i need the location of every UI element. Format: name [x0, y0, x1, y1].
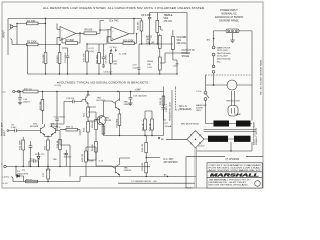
node switch labels [196, 91, 207, 112]
resistor R33 10 zobel [160, 96, 165, 105]
capacitor C8 bottom-left [22, 150, 68, 172]
resistor R22 1K [23, 89, 38, 93]
resistor R10 47K vertical [83, 43, 99, 74]
wire speaker jack [176, 88, 180, 110]
wire secondary [197, 139, 252, 151]
capacitor C16 47p [52, 98, 83, 124]
wire lamp row [206, 84, 253, 86]
node mains fuse note [217, 46, 232, 63]
wire TR5 to bottom [60, 145, 96, 177]
transistor TR1 BC184 [30, 123, 45, 136]
resistor R8 100 [84, 29, 107, 35]
wire top rail [8, 18, 134, 20]
capacitor C4 [88, 48, 94, 53]
transformer T1 core [204, 130, 257, 132]
connector IEC mains inlet [226, 29, 239, 33]
ground mains earth [230, 33, 235, 43]
capacitor C11 [173, 60, 179, 74]
node speaker label [179, 106, 192, 111]
op-amp IC2 [111, 27, 134, 41]
wire left rail [7, 19, 9, 56]
resistor R25 tail vertical [44, 140, 49, 167]
switch SW1 mechanical link [206, 74, 253, 76]
node junction TR collectors [19, 91, 131, 137]
resistor R32 vertical [145, 111, 153, 136]
capacitor C18 1000/25V [128, 92, 147, 106]
resistor R2 220K [27, 41, 61, 46]
lamp power indicator [227, 80, 237, 90]
resistor R7 2M2 feedback [62, 34, 80, 45]
node D.C. OUT label [164, 159, 179, 164]
resistor R,TR5 emitter vertical [102, 126, 105, 134]
transformer T1 secondary windings [208, 136, 251, 142]
node supply terminals [13, 90, 15, 92]
transistor TR2 BC184 [45, 123, 61, 145]
wire speaker feed [164, 87, 176, 136]
resistor R20 vertical [92, 120, 97, 130]
diode bridge BR1 [187, 131, 204, 148]
wire mains neutral [239, 31, 252, 75]
capacitor C5 10/25V vertical [102, 44, 108, 67]
wire to IC2 [100, 21, 111, 45]
capacitor C13 bottom [29, 159, 39, 167]
resistor R19 1K vertical [57, 140, 62, 168]
node OK junction label [164, 175, 168, 178]
capacitor C14 10/25V [18, 92, 31, 105]
wire power amp +34V rail [15, 91, 164, 93]
connector J1 input jack [10, 24, 18, 30]
resistor R5 100K vertical [43, 53, 47, 75]
lamp neon panel [228, 91, 241, 116]
transistor TR3 BC214 [82, 92, 105, 108]
op-amp IC1 [57, 24, 84, 45]
potentiometer VR2 TREBLE [156, 13, 173, 45]
resistor R27 470 vertical [84, 107, 90, 121]
node power amp input label [1, 122, 7, 136]
wire [1, 2, 264, 188]
wire bottom return line [118, 182, 195, 184]
node title block [207, 163, 262, 188]
wire ls return [164, 115, 167, 120]
transistor TR5 driver [88, 110, 112, 131]
node junction dots preamp [16, 18, 100, 75]
node power-input-note [215, 9, 244, 23]
resistor R29 vertical [84, 122, 96, 161]
border frame [2, 2, 263, 188]
resistor R31 vertical [143, 111, 147, 136]
wire bridge top [195, 130, 197, 133]
resistor R6 1K [26, 180, 38, 183]
wire bottom rail 0V [6, 166, 150, 168]
capacitor C7 bottom-left [29, 141, 33, 167]
capacitor C3 10/25V vertical [62, 48, 69, 74]
fuse FS1 [212, 46, 215, 86]
capacitor C9 0.047 input [7, 125, 24, 133]
wire primary links [206, 75, 253, 124]
wire chassis double line [195, 148, 197, 188]
paper noise overlay [2, 2, 263, 188]
wire TR3 collector net [88, 107, 96, 121]
node bottom-left voltage labels [2, 177, 9, 186]
diode D2 [35, 152, 45, 167]
node transformer label vertical [253, 121, 259, 145]
capacitor C7 47p [110, 47, 118, 52]
resistor R16 100K vertical [20, 137, 25, 167]
node output junction dots [87, 135, 152, 161]
resistor R26 10 feedback [56, 126, 80, 135]
node 0V terminal [1, 164, 6, 168]
capacitor C6 [148, 13, 151, 45]
wire bridge left [166, 138, 187, 140]
transistor TR4 output [104, 92, 132, 115]
potentiometer VR3 BASS [146, 30, 174, 60]
wire preamp ground rail [28, 45, 178, 75]
transistor TR6 output bottom [96, 158, 132, 177]
wire lower feedback line [12, 177, 197, 182]
wire tone top link [134, 13, 187, 49]
wire TR1 base [24, 130, 41, 132]
resistor R30 0R47 vertical [116, 114, 120, 136]
capacitor C15 [54, 92, 66, 131]
wire input node [11, 24, 27, 45]
capacitor C20 vertical mid-bottom [142, 162, 147, 177]
resistor R1 10K [27, 20, 46, 25]
resistor R28 vertical bottom [82, 147, 87, 177]
node output-to-power-stage label [182, 50, 195, 58]
capacitor C10 [133, 44, 173, 74]
node tone junction dots [133, 18, 177, 75]
transformer T1 primary windings [214, 121, 251, 127]
capacitor C19 0.1 zobel [162, 104, 168, 115]
wire node A to IC1 [45, 19, 47, 53]
resistor R13 220K feedback [108, 30, 137, 45]
wire mains live [214, 31, 226, 46]
resistor R3 1K vertical [57, 45, 61, 75]
switch SW1 contacts [204, 75, 209, 121]
node VOLUME label [177, 37, 187, 45]
resistor R34 220 vertical mid-bottom [142, 136, 160, 163]
resistor R14 4K7 vertical [137, 19, 142, 45]
resistor R12 470 vertical [109, 50, 118, 75]
diode D1 [15, 166, 28, 182]
resistor R23 39K vertical [40, 92, 44, 125]
wire tone to output [165, 48, 187, 53]
resistor R21 vertical [92, 130, 97, 160]
wire title area frame [186, 157, 263, 188]
resistor R11 1K vertical [97, 44, 104, 74]
capacitor C17 vertical [43, 166, 49, 182]
potentiometer VR1 volume [147, 53, 165, 74]
wire output node [104, 131, 164, 136]
